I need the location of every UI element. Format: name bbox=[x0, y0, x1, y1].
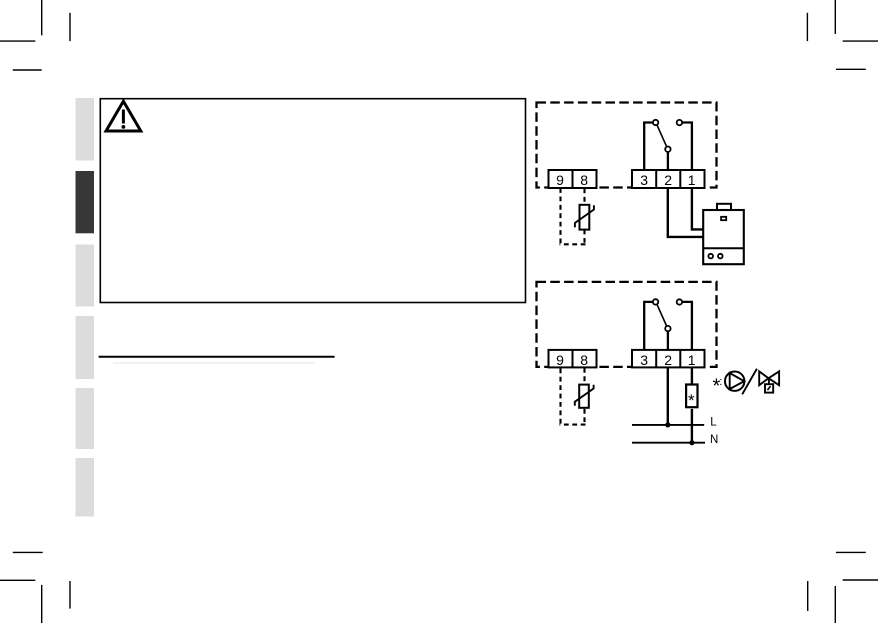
warning triangle icon bbox=[106, 101, 141, 131]
crop mark top-left horizontal bbox=[0, 40, 35, 42]
svg-text:3: 3 bbox=[640, 352, 648, 368]
N supply line bbox=[632, 442, 705, 444]
boiler sight glass bbox=[721, 217, 726, 220]
chapter tab 2 (active, dark) bbox=[76, 171, 95, 233]
dashed sensor wire from terminal 8 (diagram 1) bbox=[583, 189, 585, 205]
crop mark bottom-right inner horizontal bbox=[836, 551, 866, 553]
sensor diagonal strike (diagram 1) bbox=[575, 205, 594, 227]
svg-text:N: N bbox=[710, 434, 718, 446]
switch pivot circle (diagram 2) bbox=[665, 326, 670, 331]
L supply line bbox=[632, 424, 704, 426]
pump symbol triangle bbox=[730, 373, 745, 389]
svg-text:2: 2 bbox=[664, 172, 672, 188]
boiler knob left bbox=[708, 254, 713, 259]
chapter tab 5 bbox=[76, 388, 95, 449]
terminal block 3-2-1 (diagram 1) bbox=[632, 170, 705, 188]
valve actuator box bbox=[765, 384, 773, 392]
temperature sensor body (diagram 2) bbox=[579, 385, 589, 408]
dashed sensor wire below sensor (diagram 1) bbox=[583, 230, 585, 246]
chapter tab 4 bbox=[76, 316, 95, 379]
valve symbol right triangle bbox=[769, 371, 780, 385]
valve actuator box slash bbox=[767, 386, 770, 390]
faint ghost text line under heading rule bbox=[113, 362, 315, 364]
junction dot on N line bbox=[689, 440, 694, 445]
svg-text::: : bbox=[719, 376, 722, 388]
dashed sensor wire below sensor (diagram 2) bbox=[583, 409, 585, 426]
switch contact circle right (diagram 2) bbox=[677, 299, 682, 304]
boiler flue cap bbox=[717, 204, 731, 210]
crop mark bottom-right inner vertical bbox=[807, 581, 809, 611]
crop mark top-right vertical bbox=[834, 0, 836, 34]
switch blade (diagram 1) bbox=[657, 125, 667, 147]
switch blade (diagram 2) bbox=[657, 304, 667, 326]
crop mark bottom-right horizontal bbox=[843, 579, 878, 581]
crop mark bottom-left inner horizontal bbox=[13, 551, 43, 553]
wire pivot to terminal 2 (diagram 1) bbox=[667, 152, 669, 170]
pump symbol circle bbox=[725, 372, 744, 391]
crop mark bottom-right vertical bbox=[834, 586, 836, 623]
svg-text:8: 8 bbox=[580, 172, 588, 188]
wire terminal 2 to boiler (diagram 1) bbox=[668, 188, 703, 237]
svg-text:2: 2 bbox=[664, 352, 672, 368]
valve symbol left triangle bbox=[759, 371, 768, 385]
crop mark top-right horizontal bbox=[843, 40, 878, 42]
switch contact circle left (diagram 1) bbox=[653, 120, 658, 125]
crop mark top-right inner horizontal bbox=[836, 68, 866, 70]
crop mark top-left inner vertical bbox=[69, 13, 71, 41]
svg-text:1: 1 bbox=[688, 172, 696, 188]
legend slash bbox=[742, 369, 757, 395]
svg-text:3: 3 bbox=[640, 172, 648, 188]
terminal block 3-2-1 (diagram 2) bbox=[632, 350, 705, 368]
boiler knob right bbox=[718, 254, 723, 259]
switch contact circle left (diagram 2) bbox=[653, 299, 658, 304]
svg-text:9: 9 bbox=[556, 352, 564, 368]
dashed sensor wire from terminal 8 (diagram 2) bbox=[583, 368, 585, 385]
svg-text:1: 1 bbox=[688, 352, 696, 368]
dashed enclosure box (diagram 1) bbox=[537, 103, 717, 188]
crop mark top-right inner vertical bbox=[806, 13, 808, 41]
svg-text:L: L bbox=[710, 417, 717, 429]
wire terminal 3 to switch (diagram 2) bbox=[644, 302, 652, 350]
crop mark bottom-left inner vertical bbox=[69, 581, 71, 609]
temperature sensor body (diagram 1) bbox=[580, 205, 590, 230]
wire terminal 1 to boiler (diagram 1) bbox=[692, 188, 703, 229]
crop mark top-left inner horizontal bbox=[13, 69, 42, 71]
terminal block 9-8 (diagram 1) bbox=[549, 170, 597, 188]
dashed enclosure box (diagram 2) bbox=[537, 282, 717, 367]
switch pivot circle (diagram 1) bbox=[665, 147, 670, 152]
svg-text:9: 9 bbox=[556, 172, 564, 188]
dashed sensor wire bottom horizontal (diagram 2) bbox=[560, 424, 586, 426]
junction dot on L line bbox=[665, 422, 670, 427]
wire right contact to terminal 1 (diagram 2) bbox=[682, 302, 692, 350]
svg-text:*: * bbox=[688, 391, 695, 410]
chapter tab 6 bbox=[76, 458, 95, 517]
boiler panel divider bbox=[703, 247, 744, 249]
sensor diagonal strike (diagram 2) bbox=[575, 385, 594, 406]
wire terminal 1 to load (diagram 2) bbox=[691, 367, 693, 383]
dashed sensor wire bottom horizontal (diagram 1) bbox=[560, 243, 586, 245]
load box (pump/valve, marked *) bbox=[686, 385, 697, 408]
crop mark bottom-left horizontal bbox=[0, 579, 35, 581]
dashed sensor wire to terminal 9 (diagram 1) bbox=[559, 189, 561, 244]
terminal block 9-8 (diagram 2) bbox=[549, 350, 597, 368]
boiler body bbox=[703, 210, 744, 264]
wire terminal 2 to L line (diagram 2) bbox=[667, 367, 669, 425]
heading rule bbox=[99, 356, 335, 358]
crop mark bottom-left vertical bbox=[41, 585, 43, 623]
valve actuator stem bbox=[768, 378, 770, 384]
chapter tab 3 bbox=[76, 245, 95, 307]
warning box bbox=[100, 99, 525, 303]
wire right contact to terminal 1 (diagram 1) bbox=[682, 123, 692, 171]
dashed sensor wire to terminal 9 (diagram 2) bbox=[559, 368, 561, 424]
wire terminal 3 to switch (diagram 1) bbox=[644, 123, 652, 171]
crop mark top-left vertical bbox=[41, 0, 43, 35]
svg-text:8: 8 bbox=[580, 352, 588, 368]
wire load to N line (diagram 2) bbox=[691, 409, 693, 443]
wire pivot to terminal 2 (diagram 2) bbox=[667, 332, 669, 350]
switch contact circle right (diagram 1) bbox=[677, 120, 682, 125]
chapter tab 1 bbox=[76, 98, 95, 161]
